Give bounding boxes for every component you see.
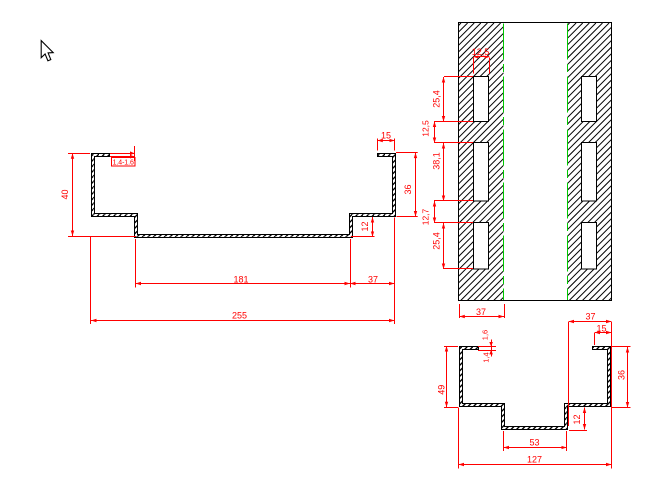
dimension 38.1 (slot2) (432, 143, 444, 201)
svg-text:38,1: 38,1 (432, 152, 442, 170)
svg-text:12: 12 (572, 414, 582, 424)
svg-text:25,4: 25,4 (432, 90, 442, 108)
thickness dim 1.6 / 1.4 (small profile lip) (478, 330, 496, 363)
dimension 127 (overall) (459, 408, 612, 469)
svg-text:12,5: 12,5 (472, 47, 490, 57)
mouse cursor (41, 41, 53, 61)
svg-text:37: 37 (476, 307, 486, 317)
svg-text:1.4-1.6: 1.4-1.6 (113, 159, 134, 166)
dimension 37 (right bottom span) (350, 218, 395, 325)
dimension 15 (right lip) (377, 131, 395, 151)
svg-text:37: 37 (368, 274, 378, 284)
svg-text:12,5: 12,5 (421, 120, 431, 137)
plan view outer rect with hatch (184, 23, 661, 301)
svg-text:1,6: 1,6 (481, 330, 490, 340)
svg-text:15: 15 (596, 324, 606, 334)
thickness label 1.4-1.6 (boxed) (110, 146, 135, 166)
small channel profile sheet (461, 346, 609, 428)
svg-text:1,4: 1,4 (482, 352, 491, 362)
dimension 12 (small profile step) (569, 408, 587, 431)
svg-text:12: 12 (360, 221, 370, 231)
svg-text:53: 53 (529, 437, 539, 447)
slots (white cutouts) (474, 77, 597, 270)
dimension 49 (small profile left wall) (437, 346, 459, 408)
dimension 255 (overall width) (91, 236, 395, 324)
big channel profile sheet (93, 153, 394, 236)
svg-text:37: 37 (585, 312, 595, 322)
left dim chain extension lines (434, 77, 473, 269)
dimension 181 (bottom span) (136, 239, 351, 288)
dimension 40 (left wall height) (60, 153, 136, 236)
svg-text:36: 36 (617, 370, 627, 380)
svg-text:12,7: 12,7 (421, 208, 431, 225)
dimension 37 (small profile top right) (569, 312, 612, 469)
dimension 37 (plan left band) (459, 304, 504, 318)
dimension 12.7 (gap2) (421, 201, 435, 225)
svg-text:36: 36 (403, 184, 413, 194)
dimension 25.4 (slot3) (432, 223, 444, 269)
green bend line right (567, 24, 569, 301)
dimension 36 (right wall) (396, 153, 418, 217)
svg-text:181: 181 (233, 274, 248, 284)
svg-text:40: 40 (60, 189, 70, 199)
dimension 53 (trough) (504, 431, 567, 451)
svg-text:255: 255 (232, 310, 247, 320)
svg-text:49: 49 (437, 385, 447, 395)
dimension 15 (small profile right lip) (595, 324, 612, 345)
svg-text:127: 127 (527, 454, 542, 464)
dimension 36 (small profile right wall) (612, 347, 631, 408)
green bend line left (503, 24, 505, 301)
dimension 25.4 (slot1) (432, 77, 444, 122)
dimension 12 (right step) (351, 217, 375, 237)
dimension 12.5 (gap1) (421, 120, 435, 143)
svg-text:25,4: 25,4 (432, 232, 442, 250)
dimension 12.5 slot width (top) (472, 47, 490, 73)
svg-text:15: 15 (381, 131, 391, 141)
